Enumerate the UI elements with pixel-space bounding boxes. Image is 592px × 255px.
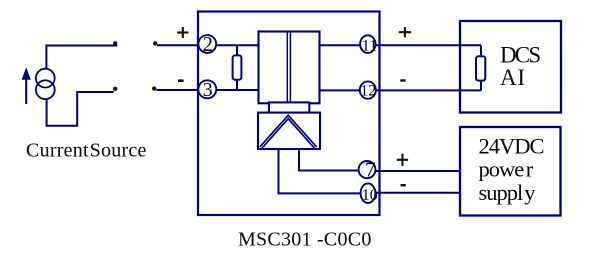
svg-text:power: power xyxy=(479,157,534,182)
node B dot xyxy=(113,87,117,91)
label DCS AI xyxy=(500,43,540,90)
svg-text:24VDC: 24VDC xyxy=(479,134,544,159)
wire CS top to node A xyxy=(46,46,117,69)
terminal 3 xyxy=(198,79,216,101)
svg-text:supply: supply xyxy=(479,180,537,205)
current source CS1 arrow xyxy=(22,67,31,104)
label plus right top xyxy=(399,27,411,37)
wire CS bottom to node B xyxy=(47,92,114,126)
svg-text:Current Source: Current Source xyxy=(26,139,147,161)
label minus right bottom xyxy=(401,184,406,187)
resistor R1 xyxy=(233,45,242,90)
label plus right bottom xyxy=(397,154,408,166)
wire converter to terminal 10 xyxy=(279,149,369,194)
wire node C to terminal 2 xyxy=(157,44,258,46)
node C dot xyxy=(153,41,157,45)
terminal 7 xyxy=(359,158,376,182)
label minus left xyxy=(178,79,184,82)
label minus right top xyxy=(400,79,405,81)
svg-text:MSC301 -C0C0: MSC301 -C0C0 xyxy=(238,229,372,251)
svg-text:AI: AI xyxy=(500,65,526,90)
svg-text:10: 10 xyxy=(362,187,378,204)
terminal 11 xyxy=(360,35,377,54)
converter U1 xyxy=(258,113,320,149)
converter link bar xyxy=(269,102,309,112)
terminal 10 xyxy=(361,183,378,204)
node D dot xyxy=(152,86,156,90)
svg-text:7: 7 xyxy=(365,158,376,182)
terminal 12 xyxy=(360,81,377,99)
transformer T1 xyxy=(259,32,320,104)
box MSC301 xyxy=(198,12,380,216)
current source CS1 xyxy=(36,69,55,99)
terminal 2 xyxy=(198,32,216,56)
wire node D to terminal 3 xyxy=(157,89,259,91)
svg-text:2: 2 xyxy=(203,32,214,56)
label 24VDC power supply xyxy=(479,134,544,205)
label plus left xyxy=(177,27,188,38)
box DCS AI xyxy=(460,21,561,113)
svg-text:3: 3 xyxy=(203,79,213,101)
wire terminal 7 to supply xyxy=(375,170,460,172)
resistor R2 xyxy=(476,45,485,90)
svg-text:DCS: DCS xyxy=(500,43,540,68)
svg-text:11: 11 xyxy=(362,38,377,55)
wire terminal 10 to supply xyxy=(375,192,460,194)
wire terminal 11 to DCS xyxy=(320,44,482,46)
box 24VDC power supply xyxy=(460,127,561,216)
node A dot xyxy=(113,41,117,45)
svg-text:12: 12 xyxy=(360,82,376,99)
wire converter to terminal 7 xyxy=(299,149,368,171)
wire terminal 12 to DCS xyxy=(320,89,482,91)
